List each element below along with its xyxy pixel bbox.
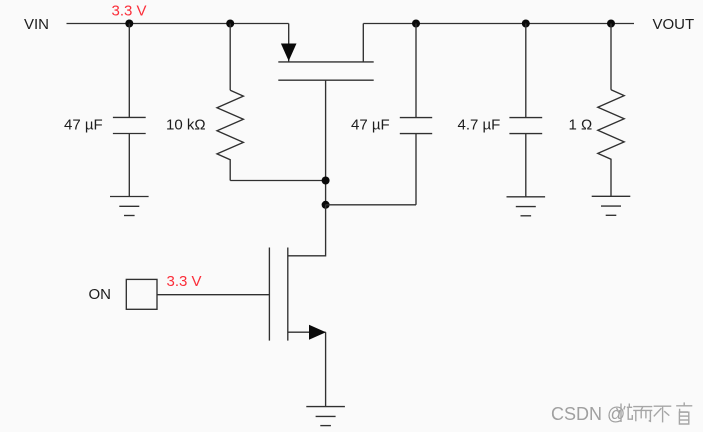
wire gate node to Q2 drain xyxy=(288,205,326,256)
wire C2 bottom to gate node xyxy=(326,204,416,206)
terminal ON input box xyxy=(126,279,157,309)
char mang (busy) xyxy=(617,404,633,423)
wire R1 bottom to gate node xyxy=(230,180,325,182)
svg-text:VIN: VIN xyxy=(24,16,49,33)
capacitor C1 47uF xyxy=(113,24,146,197)
wire Q1 gate vertical xyxy=(325,80,327,205)
watermark chinese characters (drawn strokes) xyxy=(617,402,693,424)
capacitor C3 4.7uF xyxy=(509,24,542,197)
wire top rail left segment (VIN to Q1 source) xyxy=(67,23,289,25)
svg-text:1 Ω: 1 Ω xyxy=(569,117,593,134)
resistor R2 1 Ohm xyxy=(598,24,624,197)
svg-text:CSDN @: CSDN @ xyxy=(551,404,625,424)
wire ON box to Q2 gate xyxy=(157,294,269,296)
svg-text:ON: ON xyxy=(89,286,112,303)
junction dot R2 top xyxy=(607,20,615,28)
junction dot R1 top xyxy=(226,20,234,28)
svg-text:4.7 µF: 4.7 µF xyxy=(458,117,501,134)
svg-text:10 kΩ: 10 kΩ xyxy=(166,117,206,134)
svg-text:VOUT: VOUT xyxy=(653,16,695,33)
wire top rail right segment (Q1 drain to VOUT) xyxy=(363,23,634,25)
wire Q2 source to ground xyxy=(325,332,327,406)
svg-text:3.3 V: 3.3 V xyxy=(167,273,202,290)
ground for R2 xyxy=(592,196,631,215)
junction dot VIN / C1 xyxy=(125,20,133,28)
svg-text:3.3 V: 3.3 V xyxy=(112,3,147,20)
ground for C3 xyxy=(507,197,546,216)
ground for C1 xyxy=(110,197,149,216)
char mang (blind) xyxy=(676,402,692,424)
junction dot gate node / R1 xyxy=(322,177,330,185)
junction dot C3 top xyxy=(522,20,530,28)
char er (and) xyxy=(633,407,652,422)
resistor R1 10k xyxy=(217,24,243,181)
junction dot gate node / C2 xyxy=(322,201,330,209)
ground for Q2 xyxy=(306,407,345,426)
svg-text:47 µF: 47 µF xyxy=(64,117,103,134)
char bu (not) xyxy=(654,406,672,422)
svg-text:47 µF: 47 µF xyxy=(351,117,390,134)
junction dot C2 top xyxy=(412,20,420,28)
transistor Q1 PMOS pass FET xyxy=(278,24,373,81)
capacitor C2 47uF xyxy=(400,24,432,205)
transistor Q2 NMOS xyxy=(269,248,326,341)
